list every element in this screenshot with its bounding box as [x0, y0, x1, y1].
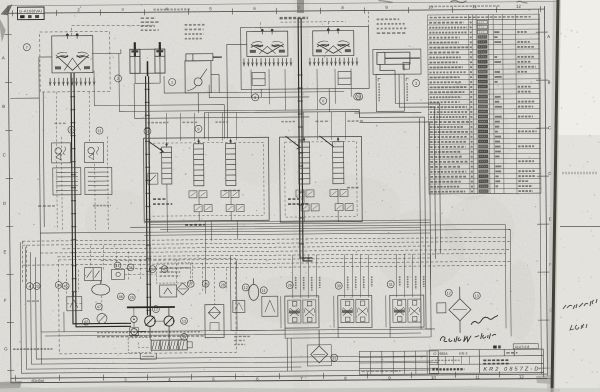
ref circle 3 [413, 80, 420, 87]
handwritten Revid date [440, 333, 496, 342]
margin tiny stamp text [562, 172, 597, 174]
group drain verticals [287, 338, 291, 371]
grid numbers bottom [124, 374, 524, 382]
cylinder feed double line [146, 76, 151, 315]
comb drop wires [251, 69, 351, 111]
MV2 handwritten tags [288, 199, 308, 204]
pump enclosure left wires [30, 249, 431, 364]
ref circle 27 [187, 280, 194, 287]
ref circle 34 [55, 281, 62, 288]
MV2 S5 lever arrow [320, 136, 334, 147]
ref circle 41 [114, 262, 121, 269]
dashed arrows into PV2 PV3 [261, 22, 346, 31]
ref circle 13 [181, 317, 188, 324]
margin handwriting LS-2800A [563, 299, 597, 309]
table dark code cells [477, 20, 488, 193]
MV1 pilot box [148, 173, 158, 184]
group feed wires [292, 254, 420, 298]
ref circle 23 [33, 283, 40, 290]
return filter RF1 tall [205, 305, 224, 338]
grid letters right [547, 34, 553, 313]
VG2 cell b [356, 299, 369, 322]
bottom group bus wires [230, 254, 435, 339]
relief box RB1 [67, 292, 82, 311]
lift cylinder CYL3 [373, 49, 421, 74]
leader wire left [10, 97, 39, 99]
paper edge dark line [551, 0, 560, 392]
ref circle 8 [252, 94, 259, 101]
right margin paper [551, 0, 600, 392]
small bar above title [493, 345, 497, 348]
tilt valve sub-box [354, 63, 421, 114]
grid letters left [2, 55, 8, 351]
revision table [359, 351, 438, 375]
ref circle 7b [354, 93, 361, 100]
MV1 handwritten tags [153, 199, 172, 204]
MV1 spool S1 [162, 142, 172, 184]
bus solid lines [40, 219, 510, 236]
priority valve box B1 [185, 54, 222, 93]
MV2 lever arrow [286, 136, 301, 149]
double line ladder ticks [70, 75, 304, 311]
ref circle 33 [331, 354, 338, 361]
dashed drops left [56, 92, 108, 230]
drain box DB1 [53, 168, 81, 195]
pilot valve assembly PV1 steering [52, 33, 93, 73]
bottom left corner return wires [20, 239, 431, 373]
ref circle 42 [83, 318, 90, 325]
MV1 spool S3 [226, 139, 236, 186]
table header text [430, 16, 531, 19]
control valve bank MV1 frame [144, 137, 270, 221]
counterbalance valve group VG2 [338, 295, 372, 327]
pilot bracket box right [338, 72, 351, 85]
relief label text [38, 205, 55, 207]
filter diamond FD3 right [449, 287, 471, 333]
pilot valve assembly PV3 [313, 28, 354, 56]
aux box AV2 [233, 300, 245, 312]
handwritten squiggle [471, 315, 498, 324]
gauge circle small [130, 328, 139, 336]
PV2 spring comb [243, 58, 292, 66]
filter note text [234, 336, 250, 344]
grid numbers top [33, 4, 521, 13]
smudges above top border [450, 1, 466, 3]
filter diamond FD1 [177, 283, 189, 295]
ref circle 46 [117, 293, 124, 300]
ref circle 1 [169, 78, 176, 85]
bank feed drop wires [166, 112, 345, 141]
heater box dashed [157, 263, 193, 283]
ref circle 18 [144, 128, 151, 135]
wire loop bundle right [359, 70, 441, 330]
solenoid valve box SV1 [85, 268, 102, 281]
counterbalance valve group VG1 [285, 296, 319, 328]
cylinder link wires [135, 73, 160, 83]
title row2 cells text [431, 359, 459, 361]
pump enclosure dashed [58, 259, 236, 354]
MV2 internal wires [304, 189, 338, 222]
handwritten arrows note [185, 224, 204, 226]
VG3 cell a [393, 299, 406, 322]
step wires between assemblies and banks [94, 52, 360, 140]
ref circle 11b [260, 287, 267, 294]
ref circle 13r [473, 292, 480, 299]
aux valve box AV1 [262, 296, 278, 316]
directional valve DV1 hatched [151, 340, 192, 350]
BU test note [13, 348, 52, 350]
ref circle 14 [181, 333, 188, 340]
center pilot bus double line [298, 18, 312, 261]
DV1 dashed sub-enclosure [128, 338, 151, 353]
ref circle 17 [152, 306, 159, 313]
counterbalance valve group VG3 [390, 295, 424, 327]
steering pilot main line double [71, 72, 131, 326]
MV2 spool S4 [299, 137, 310, 184]
dashed link lines pump area [67, 274, 158, 348]
ref circle 4 [26, 283, 33, 290]
PV2 PV3 enclosure [241, 26, 369, 89]
ref circle 6 [320, 97, 327, 104]
MV1 S2 sub squares [189, 191, 197, 198]
pilot bracket box left [252, 72, 265, 85]
ref circle 26 [202, 280, 209, 287]
MV1 internal wires [167, 184, 231, 222]
margin horizontal crease [560, 226, 600, 228]
aux box AV3 [437, 303, 446, 313]
motor box M1 [160, 285, 177, 297]
ref circle 30 [335, 282, 342, 289]
ref circle 12r [445, 289, 452, 296]
tank T1 [140, 353, 156, 359]
accumulator ACC1 [92, 284, 110, 295]
pilot dashed drop x370 [368, 11, 370, 26]
table rows [429, 22, 537, 192]
wire loop left side [39, 44, 361, 333]
filter diamond FD2 bottom-center [307, 330, 331, 366]
MV1 spool S2 [194, 139, 204, 186]
title block [429, 349, 543, 373]
VG1 cell a [288, 300, 301, 323]
relief valve RV1 [52, 143, 71, 163]
ref circle 9 [195, 125, 202, 132]
PV1 spring comb [49, 78, 95, 86]
pump suction header thick [127, 306, 175, 308]
ref circle 39 [149, 266, 156, 273]
ref circle 29 [286, 282, 293, 289]
vertical label text columns [296, 276, 424, 291]
ref circle 47 [95, 303, 102, 310]
MV2 sub squares row2 [301, 204, 309, 211]
PV1 dashed enclosure [40, 31, 110, 92]
ref circle 25 [128, 294, 135, 301]
ref circle 5 [356, 93, 363, 100]
bus extra solid lines [150, 222, 430, 229]
MV2 spool S5 [333, 137, 344, 184]
ref circle 40 [161, 266, 168, 273]
ref circle 24 [127, 264, 134, 271]
VG1 cell b [303, 300, 316, 323]
gear pump P4 small [131, 316, 137, 322]
ref circle 28b [242, 284, 249, 291]
cold region note handwriting [97, 332, 204, 337]
control valve bank MV2 frame [280, 137, 363, 223]
main pump P2 [164, 307, 175, 339]
parts list table [428, 14, 541, 194]
pump feed dashed verticals [66, 245, 226, 306]
gauge circle [97, 314, 107, 324]
MV2 sub squares [296, 190, 304, 197]
bottom edge smudges [0, 388, 600, 392]
annotation text blocks [141, 18, 160, 30]
steering cylinder CYL1 [130, 42, 140, 73]
check box [112, 269, 125, 279]
MV1 lever arrow [150, 142, 164, 153]
ref circle 7 [23, 44, 30, 51]
pump link wires [134, 307, 164, 340]
pilot line dashed to label [72, 25, 154, 36]
margin noise specks [560, 29, 599, 385]
ref circle 2 [115, 75, 122, 82]
ref circle 11 [96, 127, 103, 134]
ref circle 10 [68, 126, 75, 133]
relief valve RV2 [85, 143, 104, 163]
drain box DB2 [85, 167, 112, 194]
company name [432, 368, 464, 370]
pilot valve assembly PV2 [247, 29, 288, 57]
accumulator ACC2 [249, 278, 259, 300]
wire vertical v420 [419, 118, 421, 329]
MV1 sub squares row2 [194, 205, 202, 212]
tilt valve vertical labels [379, 83, 407, 102]
corner smudge top-left [0, 4, 12, 15]
margin handwriting Latest [570, 324, 587, 330]
main pump P1 [145, 307, 156, 335]
drawing number header box top-left [18, 7, 45, 20]
priority box drop wire [198, 75, 219, 113]
cylinder center block [135, 49, 160, 76]
PV3 spring comb [309, 58, 358, 66]
bank top labels [147, 122, 168, 124]
bus vertical drops [40, 213, 511, 340]
VG2 cell a [341, 300, 354, 323]
VG3 cell b [408, 299, 421, 322]
ref circle 28 [219, 281, 226, 288]
bus dashed pilot lines [22, 237, 510, 282]
ref circle 45 [62, 282, 69, 289]
MV1 S3 sub squares [221, 191, 229, 198]
paper edge shadow [547, 0, 561, 392]
steering cylinder CYL2 [155, 42, 165, 73]
ref circle 31 [387, 281, 394, 288]
